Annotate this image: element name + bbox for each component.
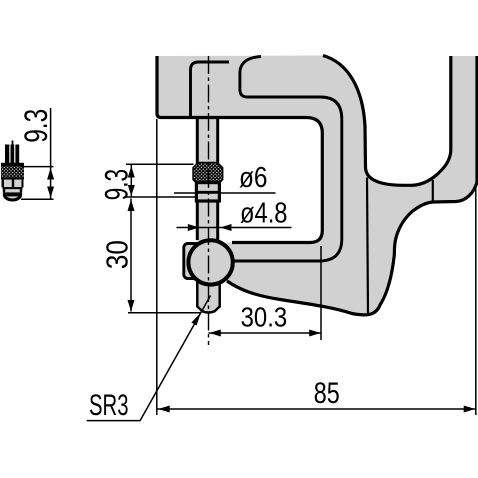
svg-text:30.3: 30.3 bbox=[241, 302, 288, 333]
svg-text:ø6: ø6 bbox=[239, 162, 268, 194]
svg-text:30: 30 bbox=[100, 240, 135, 269]
svg-text:ø4.8: ø4.8 bbox=[240, 198, 288, 230]
svg-text:SR3: SR3 bbox=[89, 389, 129, 422]
svg-text:85: 85 bbox=[314, 377, 340, 410]
svg-text:9.3: 9.3 bbox=[99, 169, 135, 201]
svg-text:9.3: 9.3 bbox=[18, 109, 54, 143]
